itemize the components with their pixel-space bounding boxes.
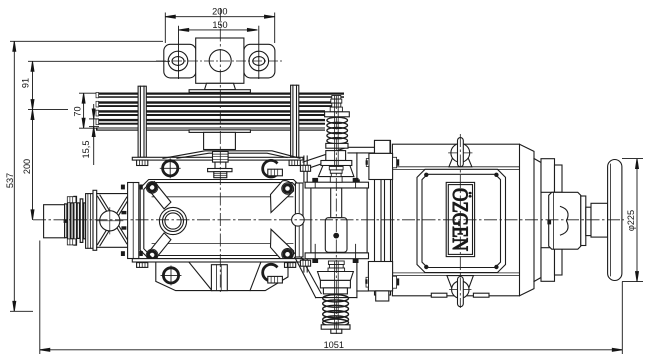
- input shaft stub: [44, 205, 65, 238]
- svg-text:200: 200: [22, 159, 32, 174]
- finned drum band 1: [96, 93, 344, 98]
- right wall step bottom: [541, 248, 562, 282]
- gearbox top-right C clamp: [263, 160, 283, 177]
- upper spring base block: [321, 161, 352, 166]
- wheel shaft neck: [586, 207, 591, 235]
- valve bottom plate bolt left: [312, 244, 318, 263]
- right tie rod: [291, 85, 299, 157]
- upper spring bottom washer: [326, 143, 348, 148]
- flange plate bolt bottom: [121, 251, 125, 256]
- flange stud bottom: [300, 259, 310, 272]
- lower spring upper washer: [323, 288, 347, 294]
- bottom rail nut left: [137, 263, 148, 268]
- actuator bottom rail: [392, 273, 519, 276]
- dimension 200 left: [31, 110, 34, 220]
- pulley bottom hub: [204, 132, 236, 149]
- pulley top plate: [189, 90, 250, 93]
- finned drum band 2: [96, 101, 337, 107]
- lower spring bottom nut: [331, 329, 342, 333]
- gearbox top-left cover bolt: [160, 159, 180, 178]
- left tie rod foot nut: [137, 160, 148, 165]
- bracket ear centerline horizontal: [156, 60, 284, 62]
- right wall step top: [541, 159, 562, 193]
- gearbox top cover: [163, 151, 300, 159]
- dimension 91: [28, 61, 170, 109]
- actuator mount columns: [375, 141, 391, 296]
- dimension 150: [179, 26, 259, 79]
- bottom rail nut right: [285, 263, 296, 268]
- upper spring housing: [318, 166, 354, 177]
- mount clamp block bottom: [365, 262, 399, 291]
- main horizontal centerline: [33, 219, 624, 221]
- valve window: [325, 218, 347, 253]
- corner gusset top-right: [271, 181, 294, 213]
- corner bolt donut bottom-left: [146, 249, 158, 261]
- cover screw top-right: [494, 173, 498, 177]
- top mounting bracket center block: [196, 38, 244, 83]
- dimension 537: [10, 41, 163, 311]
- clutch hub block: [547, 192, 580, 249]
- upper spring keeper block: [326, 151, 346, 161]
- actuator cover plate: [417, 169, 506, 272]
- shaft flange bottom nub: [67, 239, 76, 245]
- svg-text:200: 200: [212, 7, 227, 17]
- cover screw top-left: [424, 173, 428, 177]
- flange plate bolt top: [121, 185, 125, 190]
- lower spring bottom washer: [321, 325, 350, 329]
- lower spring rod: [334, 262, 338, 329]
- top mounting bracket right ear: [244, 44, 275, 78]
- svg-text:15,5: 15,5: [81, 141, 91, 159]
- upper spring coil: [327, 117, 348, 144]
- upper spring rod nut stack: [330, 96, 342, 112]
- gearbox main body outer casing: [140, 180, 302, 259]
- right tie rod foot nut: [289, 160, 300, 165]
- left tie rod: [138, 86, 146, 157]
- gearbox bottom drain tab: [211, 265, 227, 291]
- svg-text:φ225: φ225: [626, 210, 636, 231]
- vertical centerline valve spindle: [335, 96, 337, 334]
- pulley top neck: [205, 83, 236, 89]
- gearbox face recess bottom line: [152, 243, 293, 245]
- actuator right wall: [520, 144, 542, 296]
- left bearing boss circles: [159, 207, 186, 234]
- gearbox left wall bolt top: [139, 185, 143, 190]
- actuator top boss: [449, 138, 473, 167]
- handwheel hub: [591, 203, 608, 237]
- shaft big flange: [86, 194, 93, 249]
- dimension phi225: [622, 159, 643, 282]
- gearbox bottom flange rail: [132, 259, 303, 262]
- shaft flange ring 3: [71, 203, 73, 239]
- tick bolt left of column: [355, 179, 360, 182]
- actuator main body: [392, 144, 519, 296]
- actuator bottom boss: [447, 276, 474, 307]
- corner bolt donut top-left: [146, 182, 158, 194]
- corner gusset top-left: [148, 182, 171, 209]
- actuator bottom pad right: [473, 293, 489, 297]
- handwheel rim: [608, 160, 622, 281]
- dimension 1051: [40, 241, 623, 355]
- vertical centerline pulley axis: [219, 8, 221, 292]
- pulley bottom plate: [189, 130, 250, 133]
- gearbox top center stud: [208, 152, 232, 178]
- svg-text:1051: 1051: [324, 340, 344, 350]
- gearbox bottom-right C clamp: [263, 264, 283, 283]
- shaft flange ring 2: [68, 199, 71, 242]
- gearbox top flange rail: [132, 157, 303, 160]
- lower spring housing step: [320, 280, 350, 288]
- corner gusset bottom-left: [148, 233, 171, 260]
- svg-text:150: 150: [212, 20, 227, 30]
- svg-text:537: 537: [5, 173, 15, 188]
- lantern housing: [97, 194, 128, 248]
- shaft flange top nub: [67, 197, 76, 203]
- valve main body: [311, 188, 367, 253]
- valve bottom plate bolt right: [353, 244, 359, 263]
- gearbox left wall bolt bottom: [139, 251, 143, 256]
- finned drum band 4: [96, 119, 325, 125]
- finned drum band 5: [96, 128, 325, 131]
- mount top cap: [375, 140, 391, 153]
- mount bottom cap: [376, 291, 389, 301]
- gearbox bottom cover: [156, 262, 288, 291]
- flange plate bolt mid-upper: [121, 211, 126, 214]
- shaft flange ring 5: [77, 203, 79, 239]
- upper spring top washer: [325, 112, 350, 117]
- spindle guide channel: [331, 188, 342, 218]
- valve bottom plate: [305, 253, 368, 259]
- flange stud top: [300, 156, 310, 182]
- lower spring coil: [323, 295, 349, 327]
- shaft flange ring 4: [74, 196, 77, 245]
- right output boss circle: [292, 214, 305, 227]
- actuator top rail: [392, 167, 519, 170]
- cover screw bottom-right: [494, 265, 498, 269]
- dimension 70: [79, 93, 96, 128]
- shaft flange ring 7: [84, 203, 86, 239]
- shaft flange ring 1: [65, 204, 67, 238]
- corner gusset bottom-right: [271, 229, 294, 261]
- vertical centerline actuator body: [459, 134, 461, 308]
- name plate: [446, 182, 474, 256]
- lantern left plate: [93, 190, 97, 250]
- actuator bottom pad left: [431, 293, 447, 297]
- valve top plate bolt left: [312, 178, 318, 197]
- upper spring rod: [334, 96, 338, 166]
- valve top plate: [305, 182, 368, 188]
- upper bellows cone: [329, 167, 343, 183]
- dimension 15,5: [89, 104, 99, 165]
- machine groups inserted here: [44, 38, 622, 333]
- finned drum band 3: [96, 110, 325, 116]
- shaft key black mark: [64, 219, 67, 223]
- gearbox input flange plate: [128, 183, 139, 259]
- shaft flange ring 6: [80, 199, 83, 243]
- lower spring housing: [318, 272, 354, 281]
- flange plate bolt mid-lower: [121, 226, 126, 229]
- strut from gearbox to lower spring housing: [295, 256, 368, 297]
- top mounting bracket left ear: [164, 44, 196, 78]
- mount clamp block top: [366, 153, 400, 179]
- svg-text:70: 70: [73, 106, 83, 116]
- svg-text:91: 91: [21, 78, 31, 88]
- clutch hub band: [581, 196, 586, 246]
- lower bellows cone: [328, 261, 345, 272]
- cover screw bottom-left: [424, 265, 428, 269]
- corner bolt donut bottom-right: [282, 249, 294, 261]
- valve top plate bolt right: [353, 178, 359, 197]
- gearbox main body inner wall: [144, 183, 299, 256]
- dimension 200 top: [165, 13, 274, 44]
- lantern sight circle: [97, 208, 124, 235]
- gearbox face recess top line: [152, 196, 293, 198]
- valve flange on gearbox right: [295, 183, 303, 257]
- valve top strut lines: [303, 147, 375, 182]
- gearbox bottom-left cover bolt: [161, 266, 181, 285]
- corner bolt donut top-right: [282, 183, 294, 195]
